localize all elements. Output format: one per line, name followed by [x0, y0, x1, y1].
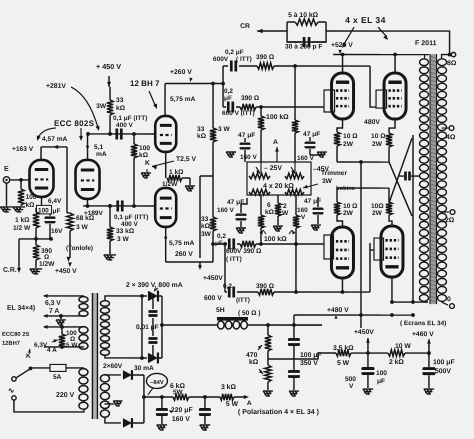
svg-text:4Ω: 4Ω: [446, 134, 456, 141]
wire to 3.5k: [294, 353, 336, 359]
svg-text:3,5 kΩ: 3,5 kΩ: [333, 345, 354, 352]
capacitor 0.2uF 600V row4: [229, 286, 234, 297]
svg-text:390 Ω: 390 Ω: [256, 54, 275, 61]
svg-text:7 A: 7 A: [49, 308, 59, 315]
ground bias2: [200, 425, 210, 430]
svg-text:V: V: [349, 383, 354, 390]
svg-text:2 × 390 V, 800 mA: 2 × 390 V, 800 mA: [126, 282, 183, 289]
wire HT bottom: [105, 356, 147, 358]
wire: [212, 231, 214, 262]
svg-text:2 kΩ: 2 kΩ: [389, 359, 404, 366]
resistor 2k 10W: [388, 350, 405, 356]
svg-text:5W: 5W: [173, 389, 184, 396]
svg-text:10Ω: 10Ω: [371, 203, 384, 210]
svg-text:12BH7: 12BH7: [2, 340, 20, 347]
tap 2 ohm: [442, 211, 450, 213]
wire cathode V1b K-line: [87, 199, 89, 206]
resistor 100k input: [20, 180, 22, 189]
heater winding 6.3V EL34: [79, 297, 88, 303]
svg-text:6,4V: 6,4V: [48, 198, 62, 205]
wire grid row4 riser x370: [369, 243, 371, 292]
tube 12BH7 upper triode: [155, 116, 176, 152]
svg-text:160 V: 160 V: [297, 155, 315, 162]
row3 grid coupling: [213, 243, 227, 245]
wire rectifier frame left: [141, 296, 143, 358]
wire primary return: [14, 400, 84, 412]
svg-text:ECC 802S: ECC 802S: [54, 119, 95, 128]
svg-text:Ω: Ω: [44, 254, 49, 261]
svg-text:3 W: 3 W: [117, 236, 130, 243]
svg-text:1/2W: 1/2W: [39, 261, 55, 268]
wire grid row1 to EL34 top2: [370, 66, 376, 107]
resistor 10R 2W top2: [389, 119, 395, 133]
svg-text:K: K: [145, 160, 150, 167]
wire to 68k: [66, 147, 68, 213]
svg-text:3W: 3W: [322, 178, 333, 185]
resistor 390 row3: [240, 241, 256, 247]
svg-text:Trimmer: Trimmer: [321, 170, 347, 177]
svg-text:6,3 V: 6,3 V: [45, 300, 61, 307]
ground input jack: [0, 207, 12, 212]
wire heater1 bottom: [44, 315, 84, 317]
svg-text:kΩ: kΩ: [201, 223, 211, 230]
resistor 390 row1: [257, 63, 274, 69]
svg-text:400 V: 400 V: [121, 221, 139, 228]
svg-text:10 W: 10 W: [395, 343, 411, 350]
grid box EL34 top2: [376, 90, 387, 108]
svg-text:+260 V: +260 V: [170, 69, 192, 76]
potentiometer row1 right: [285, 173, 304, 179]
capacitor 100uF 500V right: [422, 367, 435, 375]
svg-text:A: A: [247, 400, 252, 407]
svg-text:kΩ: kΩ: [116, 105, 126, 112]
wire dropper chain x213: [212, 83, 214, 128]
heater winding 6.3V ECC: [79, 327, 88, 334]
resistor 100k bias lower-left: [260, 195, 262, 215]
resistor 10R 2W top1: [337, 119, 343, 132]
svg-text:EL 34×4): EL 34×4): [7, 305, 35, 312]
capacitor UL tap: [399, 175, 404, 177]
wire wiper2: [294, 162, 296, 173]
svg-text:600V 390 Ω: 600V 390 Ω: [226, 248, 262, 255]
wire stub: [200, 175, 213, 177]
svg-text:1/2 W: 1/2 W: [13, 225, 31, 232]
diagonal cross wire B: [389, 162, 412, 216]
wire rail x413: [412, 135, 414, 302]
wire wiper1: [260, 162, 262, 173]
svg-text:kΩ: kΩ: [197, 133, 207, 140]
resistor 3.5k 5W: [336, 350, 351, 356]
svg-text:5 W: 5 W: [337, 360, 350, 367]
svg-text:+189V: +189V: [84, 210, 104, 217]
svg-text:– 25V: – 25V: [264, 165, 282, 172]
primary winding 220V: [79, 369, 88, 376]
svg-text:E: E: [4, 166, 9, 173]
svg-text:10 Ω: 10 Ω: [371, 133, 386, 140]
svg-text:6: 6: [267, 202, 271, 209]
mains transformer core: [92, 293, 97, 419]
svg-text:390 Ω: 390 Ω: [241, 95, 260, 102]
svg-text:5,75 mA: 5,75 mA: [170, 96, 196, 103]
svg-text:4 A: 4 A: [47, 347, 57, 354]
ground psu left: [363, 389, 373, 394]
output transformer core: [430, 54, 437, 304]
ground 390: [30, 269, 42, 274]
wire heater2 bottom: [44, 346, 84, 348]
svg-text:0,2 μF: 0,2 μF: [225, 49, 244, 56]
wire anode EL34 top2: [394, 55, 396, 74]
triode V1a ECC802S: [30, 160, 54, 197]
ground below-right: [311, 225, 321, 230]
wire anode EL34 bottom2: [391, 277, 393, 302]
diode bias2: [123, 418, 132, 427]
resistor 100k bias feed upper-left: [260, 107, 262, 116]
svg-text:kΩ: kΩ: [249, 359, 259, 366]
svg-text:+ 450 V: + 450 V: [96, 62, 121, 71]
capacitor 0.2uF 600V row2: [228, 101, 233, 112]
svg-text:470: 470: [246, 352, 258, 359]
capacitor 220uF 160V: [161, 397, 163, 408]
svg-text:–84V: –84V: [150, 379, 164, 386]
wire cathode rail lower: [337, 187, 389, 189]
capacitor bias2: [204, 397, 206, 408]
svg-text:+450V: +450V: [354, 329, 374, 336]
svg-text:3 kΩ: 3 kΩ: [221, 384, 237, 391]
wire input: [10, 179, 29, 181]
resistor 33k 3W dropper upper: [210, 128, 216, 142]
ground 100uF: [289, 391, 299, 396]
svg-text:47 μF: 47 μF: [238, 132, 255, 139]
svg-text:0,01 μF: 0,01 μF: [136, 324, 159, 331]
wire plate V2 to coupling cap: [88, 133, 155, 135]
svg-text:160: 160: [297, 207, 308, 214]
svg-text:30 à 200 p F: 30 à 200 p F: [285, 44, 322, 51]
wire screen feed riser: [293, 315, 295, 325]
svg-text:5A: 5A: [53, 374, 62, 381]
svg-text:A: A: [273, 139, 278, 146]
HT secondary winding 2x390V: [100, 301, 109, 307]
svg-text:∿: ∿: [8, 386, 14, 395]
svg-text:4 x EL 34: 4 x EL 34: [345, 15, 386, 25]
node +450V mid with arrow: [200, 261, 213, 263]
grid box EL34 top1: [324, 90, 335, 112]
resistor 6k 5W: [173, 394, 189, 400]
wire switch blade: [16, 369, 30, 378]
wire plate V1 +163V: [41, 146, 67, 148]
wire bias rail: [144, 396, 173, 398]
svg-text:600V: 600V: [213, 56, 229, 63]
ground heater CT: [56, 320, 66, 325]
wire cathode 12BH7a: [165, 152, 167, 178]
wire riser x223 rows 1-2: [222, 66, 224, 107]
resistor 100k bias lower-right: [295, 195, 297, 215]
capacitor 0.01uF upper: [152, 296, 154, 309]
svg-text:5H: 5H: [216, 307, 225, 314]
svg-text:3 W: 3 W: [218, 126, 231, 133]
potentiometer row2 right: [285, 189, 304, 195]
tap 4 ohm: [442, 127, 449, 129]
svg-text:500V: 500V: [435, 368, 451, 375]
pentode EL34 bottom1: [331, 227, 353, 278]
svg-text:( ITT): ( ITT): [226, 256, 242, 263]
row1 grid coupling: [223, 65, 228, 67]
svg-text:1 kΩ: 1 kΩ: [169, 169, 184, 176]
resistor 10R 2W bottom2: [388, 188, 390, 202]
svg-text:3W: 3W: [201, 231, 212, 238]
resistor 100k bias feed upper-right: [294, 66, 296, 120]
svg-text:33: 33: [116, 97, 124, 104]
wire cathode V1a: [41, 197, 43, 208]
boxed label 100uF: [37, 205, 52, 214]
ground 470k: [263, 391, 273, 396]
fuse 5A: [31, 367, 50, 369]
svg-text:350 V: 350 V: [300, 360, 318, 367]
svg-text:1 kΩ: 1 kΩ: [15, 217, 30, 224]
capacitor 100uF 500V left: [361, 367, 374, 375]
ground 1k: [185, 186, 195, 191]
wire bias join: [143, 375, 145, 423]
capacitor 30-200pF trimmer: [287, 41, 301, 43]
svg-text:+450V: +450V: [203, 275, 223, 282]
svg-text:100 μF: 100 μF: [433, 359, 455, 366]
diagonal cross wire A: [389, 138, 412, 203]
svg-text:0,1 μF (ITT): 0,1 μF (ITT): [114, 214, 148, 221]
resistor 470k upper: [267, 325, 269, 335]
row4 grid coupling: [225, 291, 227, 293]
wire B+ rail after choke: [248, 324, 322, 326]
hum pot 100R 5W: [61, 327, 63, 334]
svg-text:μF: μF: [224, 95, 232, 102]
svg-text:2W: 2W: [372, 210, 383, 217]
pentode EL34 bottom2: [381, 226, 403, 277]
wire riser x225 rows 3-4: [224, 244, 226, 292]
svg-text:μF: μF: [215, 240, 223, 247]
resistor 5-10k feedback: [295, 19, 318, 25]
svg-text:( ITT): ( ITT): [236, 56, 252, 63]
svg-text:500: 500: [345, 376, 356, 383]
svg-text:5 à 10 kΩ: 5 à 10 kΩ: [288, 12, 319, 19]
pentode EL34 top2: [384, 73, 406, 119]
svg-text:160 V: 160 V: [217, 207, 235, 214]
svg-text:33: 33: [197, 126, 205, 133]
diode HT1: [148, 291, 158, 301]
diode bias1: [123, 370, 132, 379]
svg-text:0,2: 0,2: [217, 233, 226, 240]
wire heater1 top: [44, 295, 84, 297]
svg-text:100 kΩ: 100 kΩ: [266, 114, 289, 121]
svg-text:kΩ: kΩ: [139, 152, 149, 159]
wire 60V CT ground: [104, 403, 114, 405]
svg-text:μF: μF: [53, 208, 61, 215]
svg-text:mA: mA: [96, 151, 107, 158]
capacitor 0.1uF ITT 400V lower: [118, 200, 123, 211]
resistor 390 row4: [258, 289, 274, 295]
potentiometer row1 left: [249, 173, 270, 179]
capacitor 0.1uF ITT 400V coupling: [117, 128, 122, 139]
svg-text:4 x 20 kΩ: 4 x 20 kΩ: [263, 182, 294, 190]
svg-text:K: K: [26, 353, 31, 360]
resistor 2W: [277, 195, 279, 203]
output transformer primary winding: [420, 59, 429, 66]
svg-text:2×60V: 2×60V: [103, 363, 123, 370]
screen rail +480V: [294, 314, 413, 316]
svg-text:CR: CR: [240, 23, 250, 30]
grid box EL34 bottom2: [374, 238, 384, 260]
svg-text:0,1 μF (ITT): 0,1 μF (ITT): [113, 115, 147, 122]
svg-text:4,57 mA: 4,57 mA: [42, 136, 68, 143]
resistor 3k 5W: [220, 394, 234, 400]
svg-text:0: 0: [447, 296, 451, 303]
svg-text:μF: μF: [377, 378, 385, 385]
svg-text:+480 V: +480 V: [327, 307, 349, 314]
svg-text:0,2: 0,2: [223, 283, 232, 290]
ground floating mid: [226, 152, 236, 157]
svg-text:100 kΩ: 100 kΩ: [264, 236, 287, 243]
svg-text:F 2011: F 2011: [415, 40, 437, 47]
row2 grid coupling: [223, 106, 226, 108]
svg-text:10 Ω: 10 Ω: [343, 133, 358, 140]
capacitor 0.2uF 600V row3: [229, 238, 234, 249]
svg-text:6,3V: 6,3V: [34, 342, 48, 349]
ground K: [141, 173, 151, 178]
triode V1b ECC802S: [76, 160, 100, 199]
svg-text:( Ecrans EL 34): ( Ecrans EL 34): [400, 320, 446, 327]
capacitor 0.2uF 600V row1: [231, 60, 236, 71]
node +450V lower left: [66, 257, 70, 262]
svg-text:2W: 2W: [343, 210, 354, 217]
resistor 1k 1/2W: [167, 175, 182, 181]
wire box outline: [287, 22, 326, 42]
svg-text:8Ω: 8Ω: [447, 60, 457, 67]
wire bias bottom: [105, 418, 121, 423]
wire HT top: [105, 296, 147, 300]
wire plate 12BH7a: [164, 83, 166, 116]
mains switch: [12, 377, 16, 381]
capacitor 100uF 350V lower: [293, 359, 295, 370]
wire anode EL34 bottom1: [341, 278, 343, 292]
wire heater2 top: [44, 326, 84, 328]
svg-text:100: 100: [26, 194, 37, 201]
svg-text:W: W: [282, 210, 289, 217]
wire: [109, 115, 111, 134]
svg-text:+281V: +281V: [46, 83, 66, 90]
svg-text:T2,5 V: T2,5 V: [176, 156, 196, 163]
resistor 1k cathode: [35, 208, 37, 212]
svg-text:3W: 3W: [96, 103, 107, 110]
svg-text:5 W: 5 W: [226, 401, 239, 408]
svg-text:600 V: 600 V: [204, 295, 222, 302]
bias secondary winding 2x60V: [100, 375, 109, 382]
svg-text:+520 V: +520 V: [331, 42, 353, 49]
wire cathode rail upper: [337, 161, 389, 163]
tap 8 ohm: [442, 55, 452, 59]
svg-text:(ITT): (ITT): [236, 297, 250, 304]
wire grid leak: [133, 134, 135, 144]
ground 2W: [273, 226, 283, 231]
svg-text:600 V (ITT): 600 V (ITT): [222, 110, 255, 117]
ground 47uF right: [317, 152, 327, 157]
output transformer secondary winding: [438, 59, 447, 66]
svg-text:260 V: 260 V: [175, 251, 193, 258]
pentode EL34 top1: [332, 73, 354, 119]
wire feedback to 8ohm tap: [326, 31, 450, 55]
wire jack ground: [6, 183, 8, 206]
wire rectifier output: [161, 296, 163, 358]
svg-text:400 V: 400 V: [116, 122, 134, 129]
svg-text:2W: 2W: [343, 141, 354, 148]
svg-text:+450 V: +450 V: [55, 268, 77, 275]
svg-text:5,75 mA: 5,75 mA: [169, 240, 195, 247]
ground 60V CT: [113, 401, 122, 406]
resistor 33k 3W dropper lower: [210, 217, 216, 231]
ground 47uF splitter: [236, 228, 246, 233]
capacitor 100uF 350V upper: [293, 325, 295, 338]
svg-text:160 V: 160 V: [172, 416, 190, 423]
svg-text:47 μF: 47 μF: [303, 131, 320, 138]
wire primary bottom: [392, 301, 428, 303]
tap 0: [441, 302, 448, 305]
svg-text:0,2: 0,2: [224, 88, 233, 95]
wire mid filter: [268, 358, 294, 360]
svg-text:( Polarisation 4 × EL 34 ): ( Polarisation 4 × EL 34 ): [238, 408, 319, 416]
bias adjust box 4x20k: [247, 162, 311, 195]
svg-text:10 Ω: 10 Ω: [343, 203, 358, 210]
potentiometer row2 left: [249, 189, 270, 195]
svg-text:100: 100: [376, 370, 387, 377]
svg-text:390 Ω: 390 Ω: [256, 283, 275, 290]
resistor 470k lower: [267, 351, 269, 365]
svg-text:+163 V: +163 V: [12, 146, 34, 153]
resistor 10R 2W bottom1: [336, 188, 338, 202]
svg-text:5,1: 5,1: [94, 144, 104, 151]
svg-text:3 W: 3 W: [76, 224, 89, 231]
resistor 68k 3W: [67, 212, 70, 214]
ground psu right: [424, 389, 434, 394]
capacitor 0.01uF lower: [152, 325, 154, 336]
svg-text:100: 100: [139, 145, 150, 152]
wire bias top: [105, 374, 121, 375]
svg-text:16V: 16V: [51, 228, 63, 235]
svg-text:12 BH 7: 12 BH 7: [130, 79, 160, 88]
svg-text:kΩ: kΩ: [265, 209, 275, 216]
ground 220uF: [157, 425, 167, 430]
resistor 33k 3W tail: [109, 206, 111, 227]
wire parallel: [199, 176, 201, 258]
wire: [133, 158, 135, 206]
svg-text:5 W: 5 W: [66, 342, 78, 349]
svg-text:220 μF: 220 μF: [171, 407, 193, 414]
svg-text:160 V: 160 V: [240, 154, 258, 161]
svg-text:+460 V: +460 V: [412, 331, 434, 338]
wire anode EL34 top1: [342, 55, 344, 74]
svg-text:2Ω: 2Ω: [445, 217, 455, 224]
svg-text:33: 33: [201, 216, 209, 223]
svg-text:220 V: 220 V: [56, 392, 75, 399]
wire splitter bottom: [165, 227, 167, 262]
resistor 33k 3W plate V2: [107, 100, 113, 115]
svg-text:33 kΩ: 33 kΩ: [116, 228, 135, 235]
wire plate V1b: [87, 134, 89, 160]
wire: [212, 142, 214, 217]
svg-text:2: 2: [283, 203, 287, 210]
svg-text:V: V: [301, 214, 306, 221]
resistor 100k grid 12BH7: [131, 144, 137, 158]
wire plate supply V1: [109, 87, 111, 100]
svg-text:2W: 2W: [372, 141, 383, 148]
resistor 390 row2: [240, 104, 256, 110]
tube 12BH7 lower triode: [155, 188, 176, 227]
svg-text:C.R.: C.R.: [3, 267, 17, 274]
